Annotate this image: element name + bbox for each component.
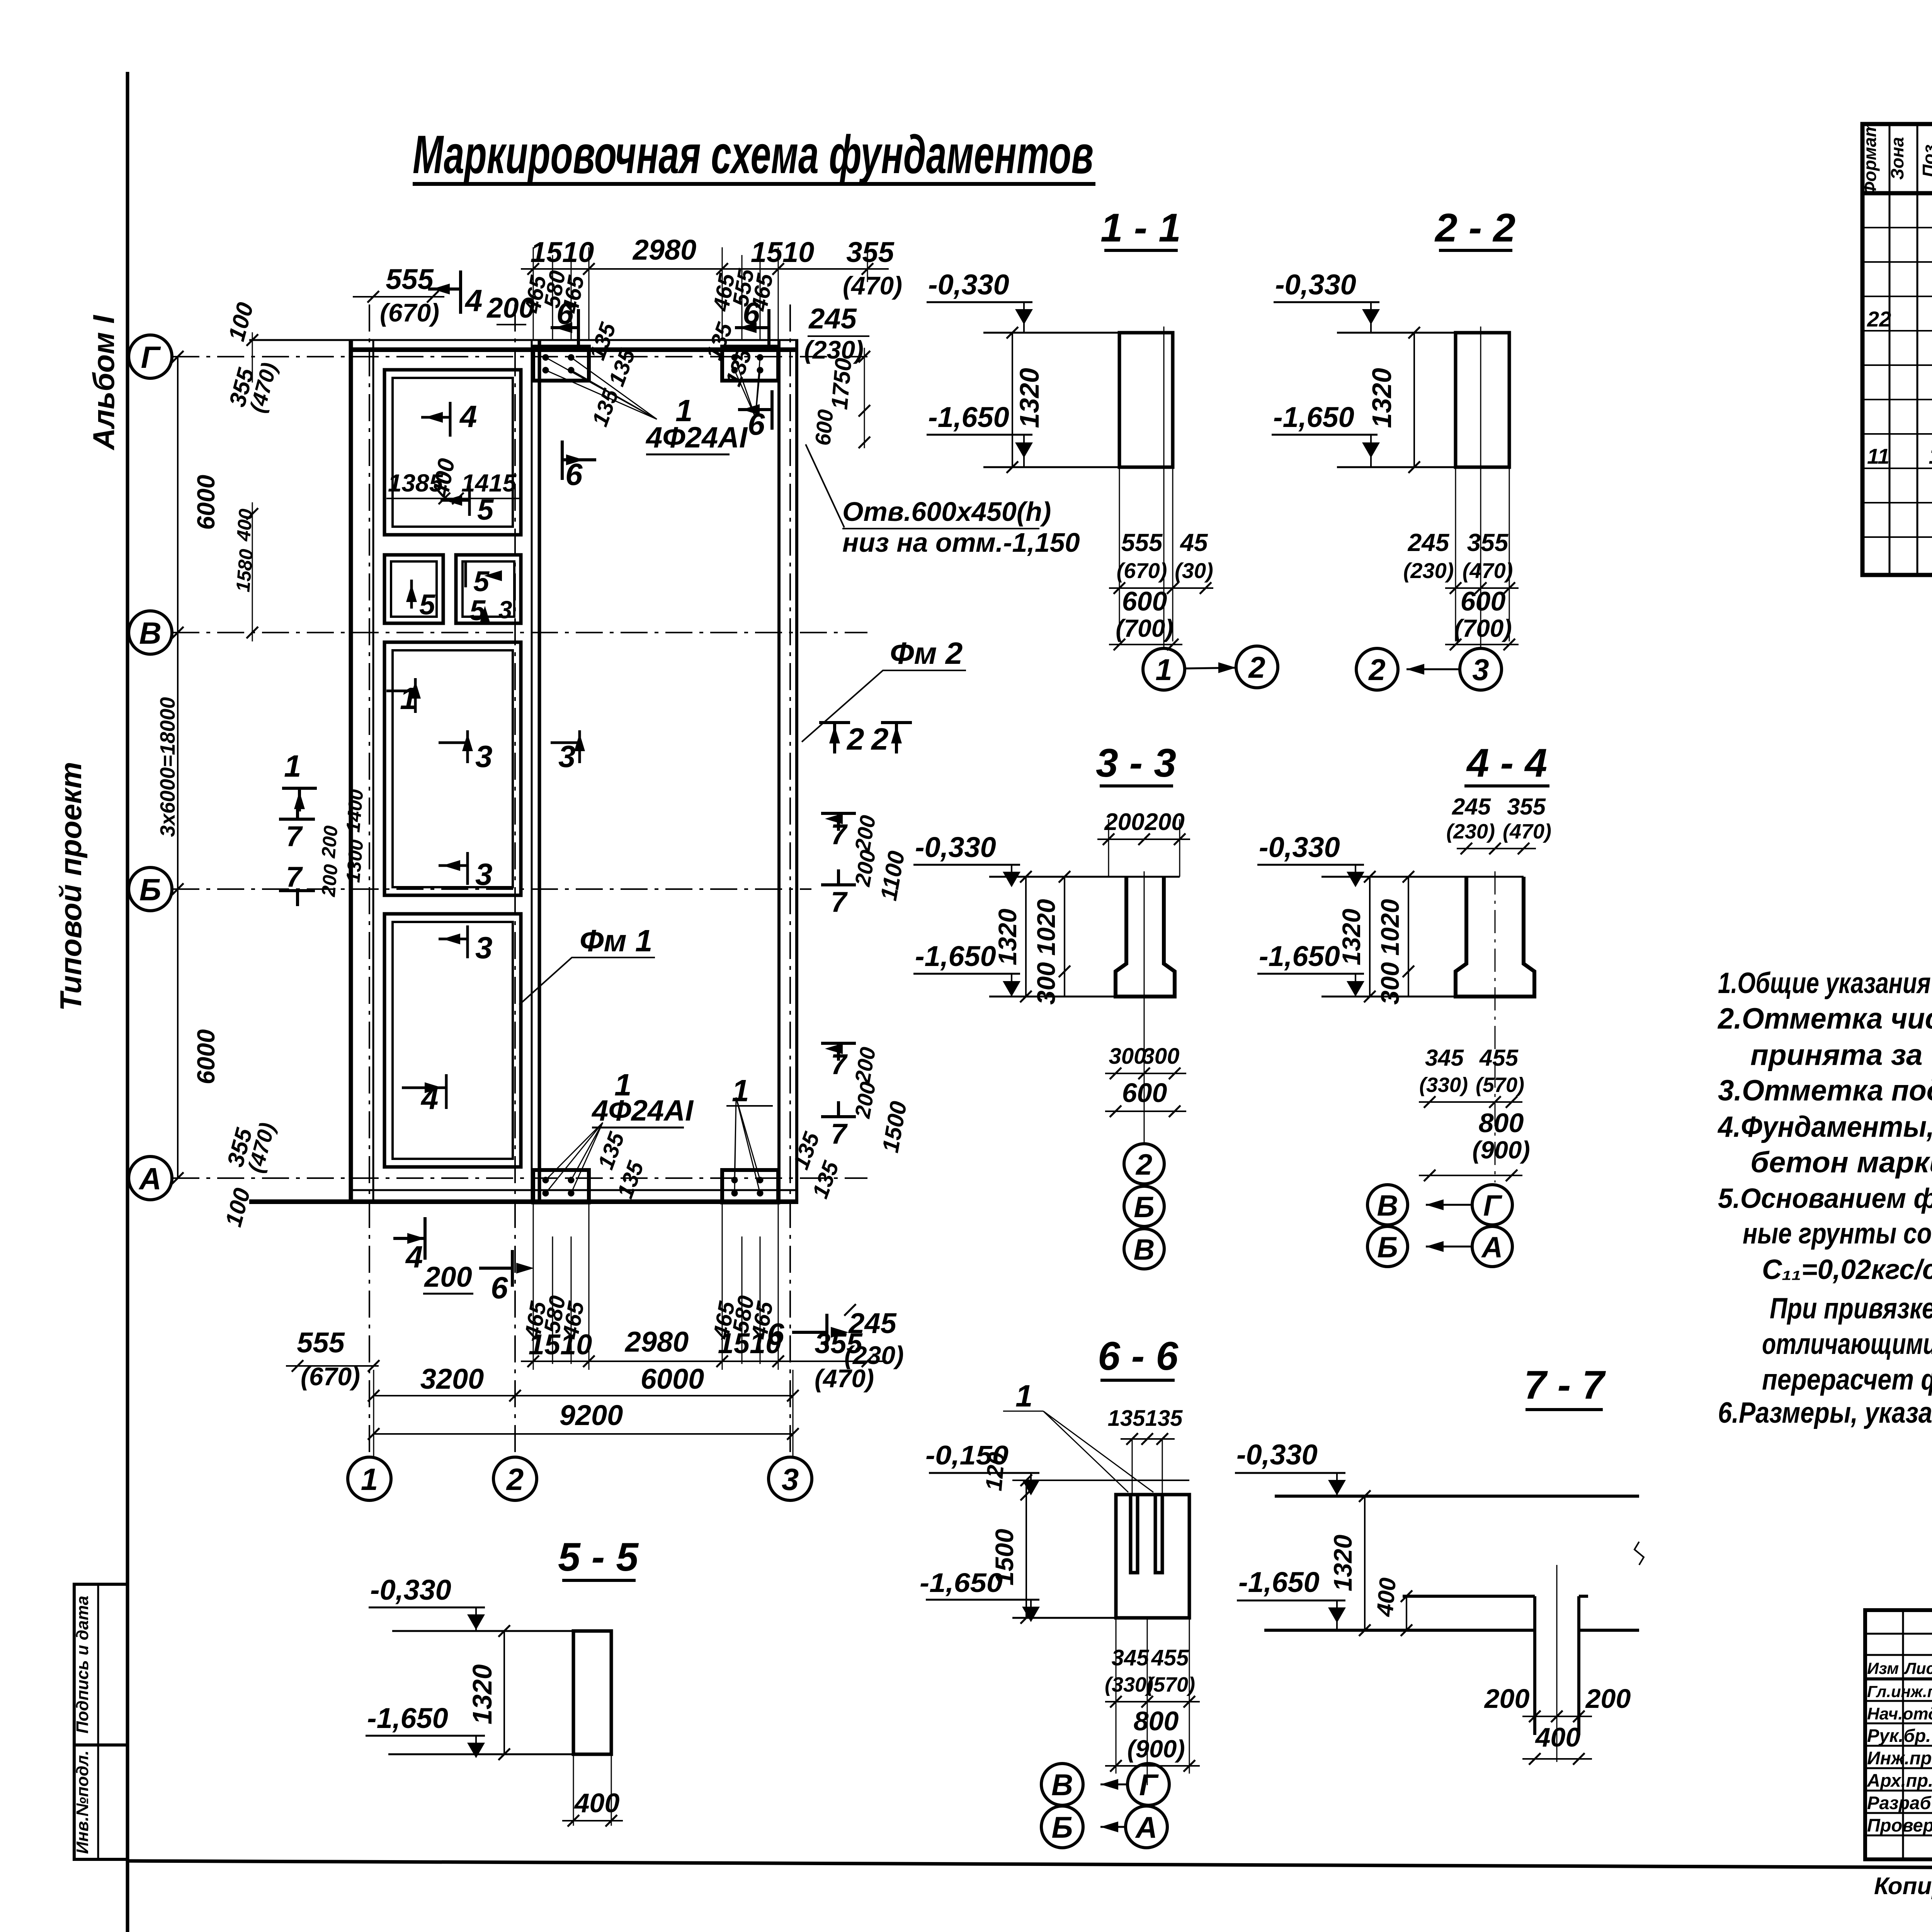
dim 245 (230) top-right <box>804 303 869 364</box>
right wall Фм2 on axis 3 <box>779 340 797 1202</box>
svg-text:Отв.600х450(h): Отв.600х450(h) <box>842 497 1051 527</box>
top sub labels 465 555 465 right <box>708 267 778 313</box>
svg-text:(670): (670) <box>1117 558 1167 583</box>
svg-text:3: 3 <box>1472 653 1489 687</box>
svg-text:1: 1 <box>1155 653 1172 687</box>
svg-text:135: 135 <box>1108 1406 1146 1431</box>
axis circle Б <box>129 867 172 911</box>
foundation pit 5 <box>384 914 521 1167</box>
section marks 2 2 right top <box>819 722 912 756</box>
section mark 6 top-right <box>735 296 769 349</box>
bottom label 1 4Ф24АI left <box>591 1068 694 1128</box>
section 7-7 bottom dims <box>1484 1684 1631 1765</box>
svg-text:(900): (900) <box>1472 1136 1530 1164</box>
svg-text:200: 200 <box>423 1261 472 1293</box>
svg-text:1510: 1510 <box>531 236 594 268</box>
svg-text:1500: 1500 <box>877 1099 912 1155</box>
anchor plate bottom-left <box>533 1170 589 1202</box>
left section marks 7 pair <box>279 804 315 906</box>
section 6-6 elevation -0,150 <box>925 1440 1040 1495</box>
middle wall Фм1 on axis 2 <box>532 340 539 1202</box>
right section marks 7 lower pair with dims <box>821 1043 912 1155</box>
axis circle 2 <box>493 1457 537 1500</box>
section 6-6 axis bubbles В Г Б А <box>1041 1764 1169 1848</box>
svg-text:1.Общие указания см. на КЖ-1.: 1.Общие указания см. на КЖ-1. <box>1718 967 1932 1000</box>
section 6-6 label 1 leader <box>1003 1379 1153 1492</box>
svg-text:2: 2 <box>871 722 889 756</box>
svg-text:2: 2 <box>506 1462 524 1497</box>
section 3-3 bottom dims <box>1105 1044 1186 1117</box>
top sub labels 465 580 465 left <box>520 269 589 315</box>
specification row: КЖ-2 Сборочный чертеж <box>1867 302 1932 333</box>
leader fan to bottom-left plate anchors <box>546 1122 603 1193</box>
svg-text:200: 200 <box>486 292 534 324</box>
section 1-1 body <box>983 327 1173 648</box>
svg-text:400: 400 <box>1535 1722 1581 1752</box>
svg-text:-0,330: -0,330 <box>1259 831 1340 863</box>
svg-text:455: 455 <box>1479 1045 1519 1071</box>
leader fan to top-left plate anchors 4Ф24АI <box>546 357 657 419</box>
svg-text:отличающимися от вышеприведенн: отличающимися от вышеприведенных,необход… <box>1762 1328 1932 1361</box>
svg-text:6000: 6000 <box>192 475 220 530</box>
svg-text:4Ф24АІ: 4Ф24АІ <box>645 421 748 454</box>
svg-text:200: 200 <box>850 848 880 888</box>
svg-text:6: 6 <box>748 407 765 441</box>
svg-text:4: 4 <box>405 1240 423 1274</box>
specification row: КЖИ-А1,А2 Анкер А1 16 <box>1867 439 1932 471</box>
svg-text:Лист: Лист <box>1904 1659 1932 1677</box>
svg-text:1510: 1510 <box>751 236 815 268</box>
svg-text:600: 600 <box>1122 1078 1167 1108</box>
svg-text:120: 120 <box>981 1451 1010 1492</box>
svg-text:2: 2 <box>1368 653 1385 687</box>
svg-text:7: 7 <box>831 1048 848 1080</box>
svg-text:1: 1 <box>284 749 301 783</box>
svg-text:А: А <box>138 1162 162 1196</box>
svg-text:800: 800 <box>1134 1706 1179 1736</box>
axis circle В <box>129 611 172 654</box>
svg-text:1: 1 <box>1929 443 1932 469</box>
svg-text:Изм: Изм <box>1867 1659 1899 1677</box>
svg-text:Г: Г <box>1483 1189 1503 1222</box>
svg-text:1320: 1320 <box>467 1664 497 1725</box>
specification table frame <box>1862 124 1932 575</box>
svg-text:455: 455 <box>1151 1645 1189 1670</box>
left wall Фм1 <box>351 340 373 1202</box>
svg-text:-1,650: -1,650 <box>367 1702 448 1734</box>
section 2-2 axis bubbles 2 3 <box>1356 648 1502 690</box>
axis circle 1 <box>348 1457 391 1500</box>
svg-text:7: 7 <box>286 820 303 852</box>
svg-text:-1,650: -1,650 <box>1238 1566 1320 1598</box>
title block signature table frame <box>1865 1610 1932 1859</box>
svg-text:200: 200 <box>1585 1684 1631 1714</box>
svg-text:Б: Б <box>1051 1810 1073 1844</box>
svg-text:В: В <box>1051 1768 1073 1802</box>
svg-text:1 - 1: 1 - 1 <box>1100 206 1181 250</box>
foundation pit 3 <box>456 555 521 623</box>
section 2-2 elevation -0,330 <box>1274 269 1380 333</box>
PLACEHOLDER-GROUPS <box>129 304 966 1500</box>
svg-text:555: 555 <box>297 1327 345 1359</box>
svg-text:А: А <box>1135 1810 1157 1844</box>
svg-text:600: 600 <box>810 408 838 447</box>
svg-text:4 - 4: 4 - 4 <box>1466 741 1547 786</box>
svg-text:200: 200 <box>1484 1684 1530 1714</box>
bottom dim 555 (670) <box>286 1327 379 1391</box>
section 2-2 elevation -1,650 <box>1272 401 1380 467</box>
section 4-4 elevation -0,330 <box>1257 831 1364 887</box>
svg-text:1020: 1020 <box>1376 899 1404 956</box>
svg-text:6.Размеры, указанные в скобках: 6.Размеры, указанные в скобках, даны для… <box>1718 1396 1932 1429</box>
specification row lines <box>1862 228 1932 537</box>
svg-text:Зона: Зона <box>1887 137 1907 180</box>
svg-text:355: 355 <box>846 236 895 268</box>
svg-text:1320: 1320 <box>1367 368 1397 428</box>
svg-text:1510: 1510 <box>718 1327 782 1359</box>
svg-text:5: 5 <box>419 588 436 621</box>
svg-text:400: 400 <box>232 508 257 542</box>
svg-text:(470): (470) <box>243 1120 280 1175</box>
svg-text:Инж.пр.: Инж.пр. <box>1867 1748 1932 1768</box>
bottom rotated 465 580 465 left <box>520 1202 589 1370</box>
left dims 1300 1400 <box>317 788 367 898</box>
section 2-2 title <box>1434 206 1515 250</box>
section 6-6 body with slots <box>981 1451 1189 1624</box>
section 4-4 body T profile <box>1321 871 1534 1182</box>
svg-text:Гл.инж.пр: Гл.инж.пр <box>1867 1682 1932 1701</box>
svg-text:Формат: Формат <box>1860 121 1880 196</box>
svg-text:345: 345 <box>1112 1645 1150 1670</box>
svg-text:1510: 1510 <box>529 1328 592 1361</box>
label Фм1 with leader <box>519 923 655 1005</box>
section 3-3 top dims 200 200 <box>1097 809 1190 877</box>
svg-text:555: 555 <box>386 263 434 295</box>
svg-text:300: 300 <box>1142 1044 1180 1069</box>
grid axis 1 <box>369 304 370 1457</box>
leader fan to top-right plate anchors <box>735 357 760 417</box>
grid axis Г <box>172 356 867 357</box>
svg-text:Г: Г <box>141 340 161 374</box>
section 1-1 axis bubbles 1 2 <box>1143 646 1278 690</box>
section 5-5 body <box>388 1625 623 1827</box>
bottom dim 3200 6000 <box>368 1363 799 1401</box>
svg-text:(900): (900) <box>1127 1735 1185 1763</box>
svg-text:Поз.: Поз. <box>1919 139 1932 177</box>
svg-text:В: В <box>1377 1189 1398 1222</box>
svg-text:(230): (230) <box>1403 558 1454 583</box>
svg-text:2 - 2: 2 - 2 <box>1434 206 1515 250</box>
section mark 6 top-left <box>551 296 578 349</box>
axis circle Г <box>129 335 172 378</box>
svg-text:(330): (330) <box>1419 1073 1468 1097</box>
svg-text:3.Отметка подошвы ленточных фу: 3.Отметка подошвы ленточных фундаментов … <box>1718 1074 1932 1107</box>
svg-text:7 - 7: 7 - 7 <box>1524 1363 1606 1408</box>
axis circle 3 <box>769 1457 812 1500</box>
svg-text:355: 355 <box>815 1327 863 1359</box>
section 3-3 axis bubbles 2 Б В <box>1124 1144 1164 1269</box>
svg-text:(470): (470) <box>245 360 282 415</box>
svg-text:Фм 1: Фм 1 <box>580 923 652 958</box>
grid axis 2 <box>514 304 516 1457</box>
svg-text:В: В <box>139 616 162 650</box>
svg-text:400: 400 <box>427 456 460 499</box>
svg-text:300: 300 <box>1376 962 1404 1005</box>
section 5-5 elevation -0,330 <box>369 1574 485 1631</box>
svg-text:-1,650: -1,650 <box>1259 940 1340 972</box>
svg-text:6: 6 <box>565 457 583 492</box>
svg-text:Б: Б <box>1377 1231 1398 1264</box>
svg-text:Инв.№подл.: Инв.№подл. <box>73 1750 92 1854</box>
svg-text:1320: 1320 <box>1337 908 1366 965</box>
axis circle А <box>129 1156 172 1200</box>
bottom label 1 right <box>726 1073 773 1108</box>
section 1-1 elevation -0,330 <box>927 269 1033 333</box>
svg-text:3: 3 <box>475 857 493 891</box>
svg-text:3 - 3: 3 - 3 <box>1096 741 1176 786</box>
svg-text:(570): (570) <box>1476 1073 1524 1097</box>
section 7-7 elevation -0,330 <box>1235 1439 1346 1496</box>
left dims 400 1580 <box>232 502 258 641</box>
section 4-4 title <box>1464 741 1549 786</box>
svg-text:5 - 5: 5 - 5 <box>558 1535 639 1580</box>
svg-text:100: 100 <box>223 300 259 344</box>
svg-text:А: А <box>1481 1231 1503 1264</box>
bottom dim 200 underlined <box>423 1261 473 1294</box>
svg-text:245: 245 <box>1452 794 1492 820</box>
svg-text:2: 2 <box>846 722 864 756</box>
MAIN-TITLE <box>413 124 1095 185</box>
svg-text:7: 7 <box>831 886 848 918</box>
grid axis 3 <box>789 304 791 1457</box>
svg-text:Разраб: Разраб <box>1867 1793 1932 1813</box>
svg-text:355: 355 <box>1467 529 1509 556</box>
svg-text:1320: 1320 <box>1328 1534 1357 1591</box>
svg-text:Арх.пр.: Арх.пр. <box>1867 1770 1932 1791</box>
svg-text:Маркировочная схема фундаменто: Маркировочная схема фундаментов <box>413 124 1094 185</box>
left section marks 1 1 <box>282 749 317 811</box>
section 5-5 elevation -1,650 <box>366 1702 485 1758</box>
svg-text:6: 6 <box>743 296 760 330</box>
svg-text:Б: Б <box>1134 1191 1155 1224</box>
svg-text:4Ф24АІ: 4Ф24АІ <box>591 1094 694 1127</box>
rotated 135 135 labels top <box>585 319 757 430</box>
svg-text:перерасчет фундаментов по СНиП: перерасчет фундаментов по СНиП ІІ-15-74,… <box>1762 1363 1932 1396</box>
svg-text:600: 600 <box>1122 586 1167 616</box>
svg-text:Г: Г <box>1139 1768 1159 1802</box>
section 4-4 bottom dims <box>1419 1045 1530 1181</box>
svg-text:1: 1 <box>361 1462 378 1497</box>
svg-text:2980: 2980 <box>624 1326 689 1358</box>
svg-text:355: 355 <box>1507 794 1546 820</box>
section 7-7 elevation -1,650 <box>1237 1566 1346 1630</box>
section 6-6 bottom dims <box>1105 1618 1200 1785</box>
leader fan to bottom-right plate anchors <box>735 1097 760 1193</box>
svg-text:300: 300 <box>1109 1044 1146 1069</box>
svg-text:-1,650: -1,650 <box>915 940 996 972</box>
svg-text:низ на отм.-1,150: низ на отм.-1,150 <box>842 527 1080 558</box>
svg-text:При привязке проекта на площад: При привязке проекта на площадках с грун… <box>1770 1292 1932 1325</box>
svg-text:6 - 6: 6 - 6 <box>1098 1334 1179 1379</box>
svg-text:принята за 0,000.: принята за 0,000. <box>1750 1039 1932 1071</box>
anchor plate bottom-right <box>722 1170 778 1202</box>
svg-text:(670): (670) <box>301 1362 360 1391</box>
dim 555 (670) top-left <box>353 263 444 327</box>
svg-text:4.Фундаменты,выполнить из буто: 4.Фундаменты,выполнить из бутобетона: бу… <box>1717 1111 1932 1143</box>
svg-text:Альбом I: Альбом I <box>87 315 121 451</box>
svg-text:200: 200 <box>850 813 880 854</box>
svg-text:Копир. Шейнфайн: Копир. Шейнфайн <box>1874 1873 1932 1900</box>
foundation pit 2 <box>384 555 443 623</box>
svg-text:400: 400 <box>1372 1577 1401 1618</box>
svg-text:Провер.: Провер. <box>1867 1815 1932 1835</box>
notes text block <box>1717 967 1932 1429</box>
section 3-3 body T profile <box>989 871 1180 1144</box>
svg-text:200: 200 <box>1104 809 1144 835</box>
svg-text:-0,330: -0,330 <box>928 269 1009 301</box>
section 6-6 top dims 135 135 <box>1108 1406 1183 1495</box>
svg-text:135: 135 <box>1145 1406 1183 1431</box>
left dim 355 (470) rotated lower <box>220 1120 280 1230</box>
svg-text:135: 135 <box>587 386 624 430</box>
section 3-3 elevation -0,330 <box>913 831 1020 887</box>
svg-text:6000: 6000 <box>192 1029 220 1084</box>
svg-text:200: 200 <box>317 825 342 859</box>
left dim 100 rotated <box>223 300 259 383</box>
svg-text:1400: 1400 <box>342 788 367 833</box>
svg-text:C₁₁=0,02кгс/см² ; φ₁₁=28°; E: C₁₁=0,02кгс/см² ; φ₁₁=28°; E=150кгс/см²;… <box>1762 1254 1932 1285</box>
svg-text:4: 4 <box>464 283 483 318</box>
svg-text:-0,330: -0,330 <box>370 1574 451 1606</box>
svg-text:-1,650: -1,650 <box>1273 401 1354 433</box>
svg-text:Подпись и дата: Подпись и дата <box>73 1596 92 1734</box>
section 4-4 axis bubbles Г В А Б <box>1367 1185 1512 1267</box>
svg-text:-1,650: -1,650 <box>928 401 1009 433</box>
svg-text:6000: 6000 <box>641 1363 704 1395</box>
svg-text:3х6000=18000: 3х6000=18000 <box>156 697 179 837</box>
grid axis В <box>172 632 867 633</box>
foundation pit 1 <box>384 370 521 535</box>
svg-text:1500: 1500 <box>990 1529 1019 1585</box>
svg-text:2: 2 <box>1135 1148 1152 1181</box>
section 1-1 bottom dims <box>1109 529 1213 650</box>
svg-text:-0,330: -0,330 <box>915 831 996 863</box>
section 6-6 elevation -1,650 <box>920 1568 1040 1622</box>
svg-text:1300: 1300 <box>342 838 367 883</box>
svg-text:(670): (670) <box>380 298 439 327</box>
LEFT-BOTTOM-BOX <box>73 1584 128 1859</box>
svg-text:1320: 1320 <box>993 908 1022 965</box>
section 1-1 title <box>1100 206 1181 250</box>
foundation pit 4 <box>384 642 521 895</box>
svg-text:1580: 1580 <box>232 548 257 593</box>
svg-text:200: 200 <box>1144 809 1184 835</box>
section mark 6 mid-top pair <box>562 440 596 492</box>
svg-text:(700): (700) <box>1116 614 1173 642</box>
svg-text:2.Отметка чистого пола первого: 2.Отметка чистого пола первого этажа в п… <box>1717 1002 1932 1035</box>
svg-text:7: 7 <box>286 861 303 893</box>
svg-text:Рук.бр.: Рук.бр. <box>1867 1725 1931 1746</box>
section 3-3 elevation -1,650 <box>913 940 1020 997</box>
svg-text:3200: 3200 <box>420 1363 484 1395</box>
svg-text:1100: 1100 <box>876 849 910 903</box>
svg-text:800: 800 <box>1479 1108 1524 1138</box>
inside marks pits <box>386 399 585 1116</box>
svg-text:6: 6 <box>491 1270 508 1305</box>
svg-text:45: 45 <box>1179 529 1208 556</box>
svg-text:245: 245 <box>808 303 857 335</box>
svg-text:3: 3 <box>558 739 576 774</box>
svg-text:(30): (30) <box>1175 558 1213 583</box>
bottom rotated 135 labels <box>593 1129 844 1202</box>
svg-text:-0,330: -0,330 <box>1236 1439 1318 1471</box>
top dimension row 1510 2980 1510 355 <box>521 234 902 340</box>
bottom dim row 1510 2980 1510 355 <box>521 1326 887 1393</box>
section 6-6 title <box>1098 1334 1179 1380</box>
callout Отв.600х450(h) низ на отм.-1,150 <box>806 444 1080 558</box>
bottom wall along А <box>249 1190 798 1202</box>
svg-text:6: 6 <box>556 296 574 330</box>
top wall Фм2 along Г <box>249 340 798 350</box>
svg-text:1: 1 <box>1015 1379 1033 1413</box>
grid axis Б <box>172 888 811 890</box>
bottom dim 245 (230) <box>844 1304 904 1369</box>
anchor plate top-left <box>533 347 589 381</box>
label Фм2 with leader <box>802 636 966 742</box>
anchor plate top-right <box>722 347 778 381</box>
specification table header texts <box>1860 121 1932 196</box>
section 1-1 elevation -1,650 <box>927 401 1033 467</box>
label 1 and 4Ф24АI top <box>645 393 748 454</box>
svg-text:200: 200 <box>850 1080 880 1120</box>
svg-text:2980: 2980 <box>632 234 697 266</box>
below frame handwriting <box>1874 1873 1932 1903</box>
svg-text:3: 3 <box>498 596 512 624</box>
svg-text:7: 7 <box>831 818 848 850</box>
svg-text:245: 245 <box>1408 529 1450 556</box>
section 4-4 elevation -1,650 <box>1257 940 1364 997</box>
section 7-7 title <box>1524 1363 1606 1410</box>
svg-text:1020: 1020 <box>1032 899 1060 956</box>
svg-text:9200: 9200 <box>560 1399 623 1431</box>
section 7-7 body <box>1264 1490 1644 1762</box>
svg-text:бетон марки 75.: бетон марки 75. <box>1750 1146 1932 1179</box>
section 5-5 title <box>558 1535 639 1580</box>
svg-text:Типовой проект: Типовой проект <box>54 762 88 1011</box>
left dim 355 (470) rotated upper <box>224 360 282 415</box>
svg-text:1: 1 <box>732 1073 749 1108</box>
section 4-4 top dims 245 355 <box>1446 794 1551 854</box>
svg-text:3: 3 <box>475 739 493 774</box>
bottom dim 9200 <box>368 1370 799 1457</box>
svg-text:555: 555 <box>1121 529 1163 556</box>
signature table texts <box>1867 1659 1932 1835</box>
svg-text:(700): (700) <box>1454 614 1512 642</box>
svg-text:200: 200 <box>850 1045 880 1085</box>
svg-text:(470): (470) <box>1503 820 1551 843</box>
section 3-3 title <box>1096 741 1176 786</box>
grid axis А <box>172 1177 867 1179</box>
svg-text:(230): (230) <box>1446 820 1495 843</box>
svg-text:Нач.отд: Нач.отд <box>1867 1704 1932 1723</box>
dim 200 top <box>486 292 534 325</box>
svg-text:600: 600 <box>1461 586 1506 616</box>
svg-text:Б: Б <box>139 872 162 907</box>
dim 1750 600 rotated right of plan <box>810 348 870 448</box>
bottom section marks 4 and 6 <box>393 1217 849 1351</box>
section 2-2 body <box>1337 327 1509 648</box>
svg-text:1750: 1750 <box>826 357 856 411</box>
